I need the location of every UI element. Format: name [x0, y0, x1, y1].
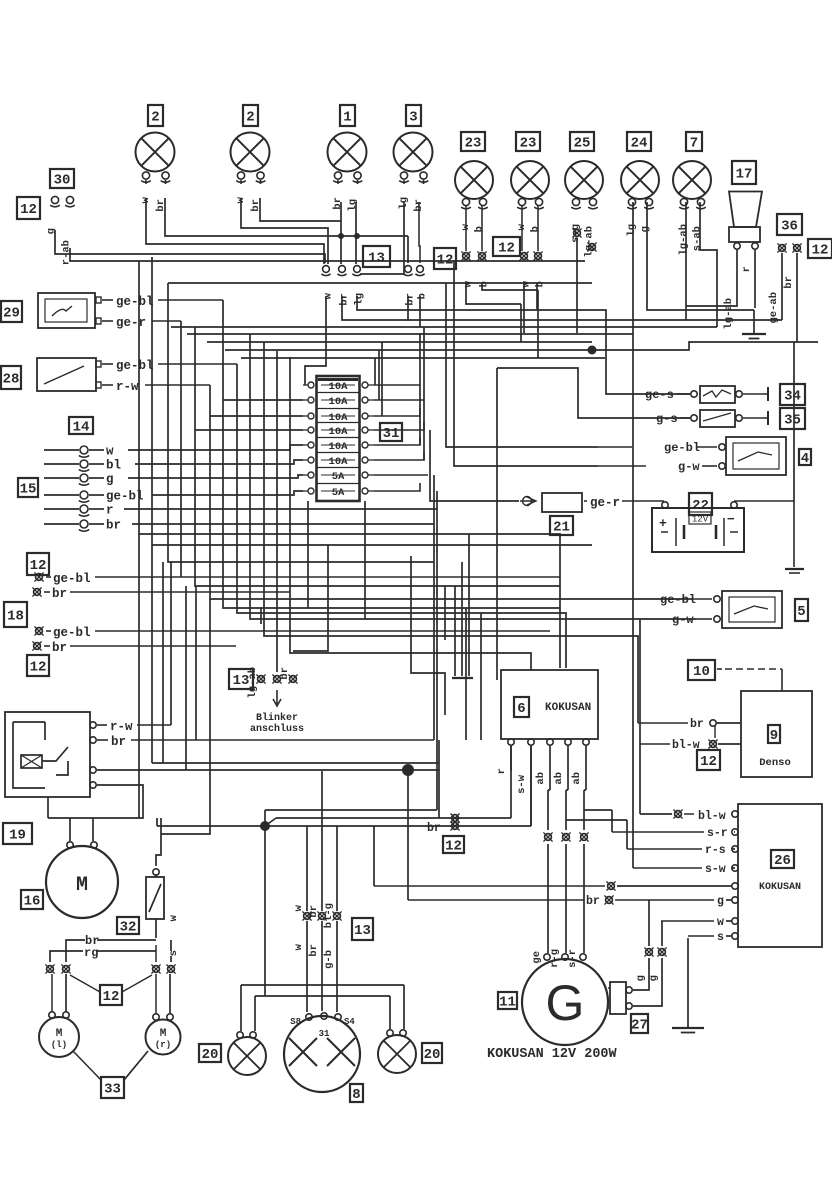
svg-text:r-g: r-g	[549, 949, 561, 968]
svg-text:2: 2	[151, 110, 159, 126]
svg-text:w: w	[293, 904, 305, 911]
svg-text:r-w: r-w	[116, 380, 139, 394]
svg-text:KOKUSAN: KOKUSAN	[545, 702, 591, 714]
svg-text:20: 20	[424, 1047, 441, 1063]
svg-text:KOKUSAN 12V 200W: KOKUSAN 12V 200W	[487, 1047, 618, 1062]
svg-text:5A: 5A	[332, 487, 345, 499]
svg-text:10: 10	[693, 664, 710, 680]
svg-text:g: g	[635, 975, 647, 981]
svg-text:ge-bl: ge-bl	[53, 626, 91, 640]
svg-text:1: 1	[343, 110, 351, 126]
svg-text:lg-ab: lg-ab	[584, 226, 596, 258]
svg-text:23: 23	[465, 136, 482, 152]
svg-text:10A: 10A	[329, 441, 349, 453]
svg-text:Denso: Denso	[759, 757, 791, 769]
svg-text:36: 36	[781, 219, 798, 235]
svg-text:bl-w: bl-w	[672, 739, 700, 752]
svg-text:29: 29	[3, 306, 20, 322]
svg-text:KOKUSAN: KOKUSAN	[759, 882, 801, 893]
svg-text:lg: lg	[626, 224, 638, 237]
svg-text:+: +	[659, 516, 667, 531]
svg-text:w: w	[106, 445, 114, 459]
svg-text:bl-g: bl-g	[323, 903, 335, 928]
svg-text:bl-w: bl-w	[698, 810, 726, 823]
svg-text:12: 12	[30, 558, 47, 574]
svg-text:(r): (r)	[155, 1040, 171, 1050]
svg-text:G: G	[546, 975, 585, 1031]
svg-text:18: 18	[7, 609, 24, 625]
svg-text:br: br	[690, 718, 704, 731]
svg-text:M: M	[160, 1028, 167, 1040]
svg-text:M: M	[56, 1028, 63, 1040]
svg-text:rg: rg	[84, 946, 98, 960]
svg-text:ge-r: ge-r	[590, 496, 620, 510]
svg-text:10A: 10A	[329, 456, 349, 468]
svg-text:g-w: g-w	[678, 460, 700, 474]
svg-text:17: 17	[736, 167, 753, 183]
svg-text:g: g	[106, 473, 114, 487]
svg-text:br: br	[339, 293, 351, 306]
svg-text:s: s	[717, 931, 724, 944]
svg-text:br: br	[308, 944, 320, 957]
svg-text:23: 23	[520, 136, 537, 152]
svg-text:21: 21	[553, 520, 570, 536]
svg-text:s-w: s-w	[705, 863, 726, 876]
svg-text:ge-r: ge-r	[116, 316, 146, 330]
svg-text:ge-bl: ge-bl	[116, 295, 154, 309]
svg-text:Blinker: Blinker	[256, 712, 298, 724]
svg-text:11: 11	[499, 995, 516, 1011]
svg-text:w: w	[293, 943, 305, 950]
svg-text:35: 35	[784, 413, 801, 429]
svg-text:12: 12	[445, 839, 462, 855]
svg-text:S4: S4	[344, 1017, 355, 1027]
svg-text:br: br	[405, 293, 417, 306]
svg-text:24: 24	[631, 136, 648, 152]
svg-text:br: br	[279, 667, 291, 680]
svg-text:g-b: g-b	[323, 950, 335, 969]
svg-text:s-r: s-r	[567, 949, 579, 968]
svg-text:ge-bl: ge-bl	[106, 490, 144, 504]
svg-text:M: M	[76, 874, 88, 897]
svg-text:lg: lg	[347, 199, 359, 212]
svg-text:S8: S8	[290, 1017, 301, 1027]
svg-text:12: 12	[103, 989, 120, 1005]
svg-text:9: 9	[770, 728, 778, 744]
svg-text:12: 12	[20, 202, 37, 218]
svg-text:anschluss: anschluss	[250, 723, 304, 735]
svg-text:br: br	[427, 822, 441, 835]
svg-text:b: b	[479, 281, 491, 287]
svg-text:s: s	[168, 950, 180, 956]
svg-text:7: 7	[690, 136, 698, 152]
svg-text:14: 14	[73, 420, 90, 436]
svg-text:lg-ab: lg-ab	[723, 298, 735, 330]
svg-text:ge-bl: ge-bl	[53, 572, 91, 586]
svg-text:br: br	[106, 519, 121, 533]
svg-text:r-w: r-w	[110, 720, 133, 734]
svg-text:6: 6	[517, 701, 525, 717]
svg-text:15: 15	[20, 482, 37, 498]
svg-text:5A: 5A	[332, 471, 345, 483]
svg-text:s-r: s-r	[707, 827, 728, 840]
svg-text:22: 22	[692, 498, 709, 514]
svg-text:ge-ab: ge-ab	[768, 292, 780, 324]
svg-text:r-s: r-s	[705, 844, 726, 857]
svg-text:br: br	[332, 197, 344, 210]
svg-text:g: g	[640, 226, 652, 232]
svg-text:10A: 10A	[329, 426, 349, 438]
svg-text:4: 4	[801, 451, 809, 467]
svg-text:27: 27	[631, 1018, 648, 1034]
svg-text:ge-bl: ge-bl	[664, 441, 700, 455]
svg-text:s-ab: s-ab	[692, 226, 704, 251]
svg-text:10A: 10A	[329, 381, 349, 393]
svg-text:2: 2	[246, 110, 254, 126]
svg-text:g-w: g-w	[672, 613, 694, 627]
svg-text:br: br	[586, 895, 600, 908]
svg-text:w: w	[717, 916, 724, 929]
svg-text:g-s: g-s	[656, 412, 678, 426]
svg-text:31: 31	[319, 1029, 330, 1039]
svg-text:r: r	[106, 504, 114, 518]
svg-text:lg: lg	[354, 293, 366, 306]
svg-text:−: −	[727, 512, 735, 527]
svg-text:13: 13	[354, 923, 371, 939]
svg-text:s-w: s-w	[516, 774, 528, 794]
svg-text:ge-s: ge-s	[645, 388, 674, 402]
svg-text:30: 30	[54, 173, 71, 189]
svg-text:ab: ab	[553, 772, 565, 785]
svg-text:8: 8	[352, 1087, 360, 1103]
svg-text:ge: ge	[531, 951, 543, 964]
svg-text:28: 28	[3, 372, 20, 388]
svg-text:w: w	[168, 914, 180, 921]
svg-text:br: br	[308, 905, 320, 918]
svg-text:12: 12	[700, 754, 717, 770]
svg-text:ab: ab	[571, 772, 583, 785]
svg-text:br: br	[111, 735, 126, 749]
svg-text:ge-bl: ge-bl	[116, 359, 154, 373]
svg-text:b: b	[417, 293, 429, 299]
svg-text:bl: bl	[106, 459, 121, 473]
svg-text:lg-ab: lg-ab	[247, 667, 259, 699]
svg-text:16: 16	[24, 894, 41, 910]
svg-text:br: br	[52, 641, 67, 655]
svg-text:r: r	[496, 768, 508, 774]
svg-text:r: r	[741, 266, 753, 272]
svg-text:32: 32	[120, 920, 137, 936]
svg-text:3: 3	[409, 110, 417, 126]
svg-text:20: 20	[202, 1047, 219, 1063]
svg-text:12: 12	[30, 660, 47, 676]
svg-text:ab: ab	[535, 772, 547, 785]
svg-text:33: 33	[104, 1082, 121, 1098]
svg-text:br: br	[52, 587, 67, 601]
svg-text:12: 12	[812, 243, 829, 259]
svg-text:lg-ab: lg-ab	[678, 224, 690, 256]
svg-text:ge-bl: ge-bl	[660, 593, 696, 607]
svg-text:b: b	[474, 226, 486, 232]
svg-text:25: 25	[574, 136, 591, 152]
svg-text:10A: 10A	[329, 396, 349, 408]
svg-text:b: b	[530, 226, 542, 232]
svg-text:br: br	[783, 276, 795, 289]
svg-text:w: w	[323, 292, 335, 299]
svg-text:(l): (l)	[51, 1040, 67, 1050]
svg-text:31: 31	[383, 426, 400, 442]
svg-text:12: 12	[498, 241, 515, 257]
svg-text:19: 19	[9, 828, 26, 844]
svg-text:34: 34	[784, 389, 801, 405]
svg-text:5: 5	[797, 604, 805, 620]
svg-text:13: 13	[368, 251, 385, 267]
svg-text:g: g	[717, 895, 724, 908]
svg-text:26: 26	[774, 853, 791, 869]
